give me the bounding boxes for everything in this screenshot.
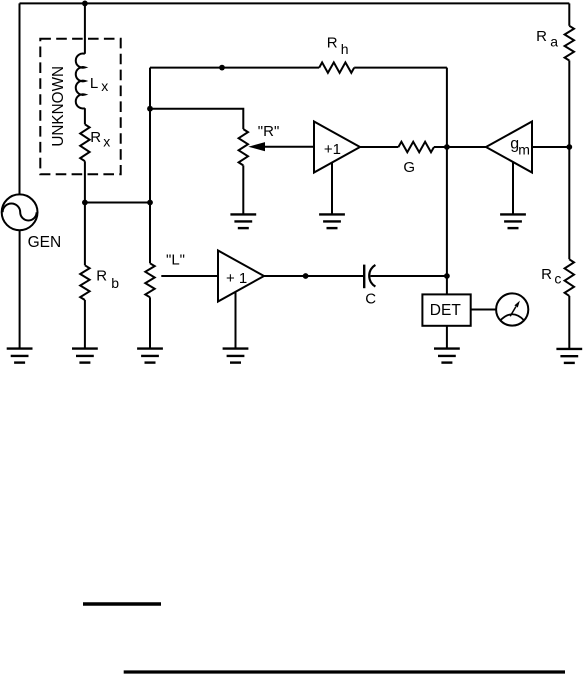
svg-text:c: c	[554, 270, 561, 286]
resistor Rc	[565, 259, 574, 296]
wire top horizontal bus	[20, 2, 570, 4]
transconductance amp gm	[486, 122, 532, 173]
wire U1 output to G	[360, 146, 398, 148]
svg-text:"R": "R"	[258, 123, 279, 140]
wire Rh to right vertical	[354, 67, 447, 69]
svg-text:R: R	[327, 34, 338, 51]
ground below DET	[434, 349, 460, 363]
node junction top bus / unknown branch	[82, 1, 88, 7]
meter needle	[510, 307, 516, 317]
svg-text:L: L	[90, 75, 98, 92]
wire L wiper to buffer U2 input	[161, 275, 218, 277]
svg-text:G: G	[403, 159, 415, 176]
node junction at 150,202.5	[147, 200, 153, 206]
wire gm to ground	[512, 162, 514, 215]
wire Rx down to node and Rb	[84, 161, 86, 265]
wire left vertical from top bus to generator	[19, 3, 21, 194]
generator GEN symbol circle	[2, 194, 38, 230]
resistor Rh	[319, 62, 354, 72]
resistor Rx	[80, 124, 89, 161]
wire node to L-branch	[85, 202, 150, 204]
capacitor C left plate	[363, 265, 365, 289]
wire DET to meter	[471, 309, 496, 311]
node junction at 85,202.5	[82, 200, 88, 206]
node dot on U2 output	[303, 273, 309, 279]
ground below generator	[7, 349, 33, 363]
svg-text:h: h	[341, 41, 349, 57]
wire node to potentiometer R	[150, 109, 243, 129]
node junction capacitor / DET	[444, 273, 450, 279]
resistor Ra	[565, 26, 574, 61]
node junction right bus / gm	[566, 144, 572, 150]
ground below U1	[319, 214, 345, 228]
wire R pot to ground	[242, 165, 244, 214]
wire Rc to ground	[568, 296, 570, 349]
wire top bus down to unknown impedance	[84, 3, 86, 53]
svg-text:"L": "L"	[166, 252, 185, 269]
svg-text:x: x	[101, 78, 108, 94]
meter scale arc	[500, 314, 524, 321]
ground below U2	[223, 349, 249, 363]
wire gm input from right bus	[532, 146, 569, 148]
svg-text:+1: +1	[324, 141, 341, 158]
wire vertical L-branch x=150	[149, 68, 151, 264]
meter needle arrowhead	[514, 301, 520, 308]
wire U1 to ground	[331, 163, 333, 215]
wire vertical x=446.9 down to DET	[446, 68, 448, 295]
svg-text:R: R	[536, 28, 547, 45]
svg-text:R: R	[96, 268, 107, 285]
meter M circle	[496, 293, 528, 325]
wire right vertical bus	[568, 3, 570, 25]
wire Ra to Rc	[568, 61, 570, 260]
svg-text:GEN: GEN	[28, 234, 62, 251]
dashed box UNKNOWN	[40, 39, 120, 175]
potentiometer R	[239, 129, 248, 165]
footnote short rule	[83, 602, 161, 605]
op-amp U1 buffer +1	[314, 122, 360, 173]
resistor G	[398, 142, 434, 152]
svg-text:a: a	[550, 34, 558, 50]
wire U2 output to capacitor	[264, 275, 364, 277]
generator sine wave	[3, 204, 37, 221]
ground below gm	[500, 214, 526, 228]
wire Rh feed from L-branch	[150, 67, 319, 69]
svg-text:m: m	[518, 142, 530, 158]
wire Rb to ground	[84, 300, 86, 349]
op-amp U2 buffer +1	[218, 251, 264, 302]
potentiometer L	[145, 263, 154, 297]
ground below L pot	[137, 349, 163, 363]
node junction G output / vertical	[444, 144, 450, 150]
svg-text:C: C	[365, 291, 376, 308]
wire capacitor to DET node	[370, 275, 447, 277]
svg-text:R: R	[541, 266, 552, 283]
svg-text:+ 1: + 1	[226, 270, 247, 287]
wire L pot to ground	[149, 297, 151, 348]
detector DET box	[422, 294, 470, 325]
bottom rule	[124, 670, 565, 673]
node junction at 150,108.7	[147, 106, 153, 112]
capacitor C right curved plate	[369, 265, 375, 287]
wire inductor to Rx	[84, 108, 86, 124]
wire generator to ground	[19, 230, 21, 348]
wire U2 to ground	[235, 292, 237, 349]
inductor Lx	[76, 54, 85, 109]
svg-text:R: R	[90, 129, 101, 146]
wire G to gm amp	[434, 146, 486, 148]
wire wiper to buffer input	[263, 146, 314, 148]
node dot on Rh wire	[219, 65, 225, 71]
ground below Rc	[556, 349, 582, 363]
wire DET to ground	[446, 326, 448, 349]
resistor Rb	[80, 265, 89, 300]
svg-text:UNKNOWN: UNKNOWN	[50, 66, 67, 147]
svg-text:b: b	[111, 275, 119, 291]
svg-text:DET: DET	[430, 302, 462, 319]
ground below R pot	[230, 214, 256, 228]
ground below Rb	[72, 349, 98, 363]
svg-text:x: x	[103, 134, 110, 150]
wiper arrow of potentiometer R	[248, 142, 265, 151]
